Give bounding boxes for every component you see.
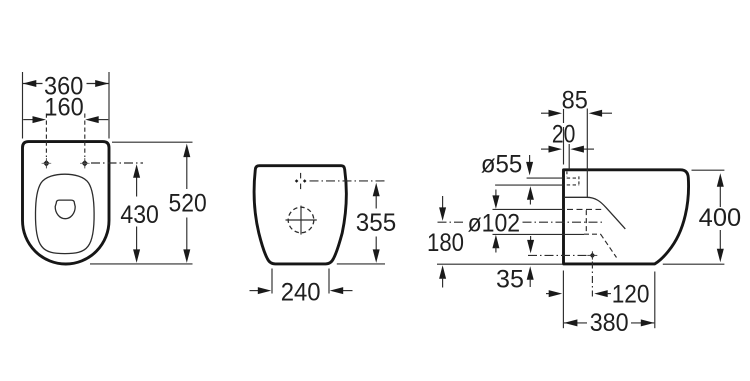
outlet bottom extension line	[493, 233, 585, 235]
svg-text:ø55: ø55	[481, 150, 522, 178]
plan view: seat opening	[35, 174, 94, 253]
dimension ø102	[438, 190, 617, 258]
front view: pan outline	[254, 166, 346, 264]
svg-text:180: 180	[427, 229, 464, 257]
plan view: right fixing hole marker	[80, 158, 90, 168]
dimension 85	[541, 86, 612, 197]
dimension 360	[23, 72, 110, 139]
dimension 380	[563, 271, 654, 338]
plan view: top extension line for 520	[112, 141, 193, 143]
front view: outlet cross hairs	[286, 219, 317, 221]
svg-text:430: 430	[120, 201, 158, 229]
dimension 430	[120, 164, 158, 263]
front view: outlet dashed circle	[288, 207, 314, 233]
plan view: dashed extension line from left hole	[45, 114, 47, 158]
svg-text:380: 380	[590, 309, 629, 337]
front view: centre line from inlet to 355 dimension	[310, 180, 386, 182]
plan view: pan outline	[23, 142, 110, 264]
plan view: centre line from right hole to 430 dimension	[91, 162, 143, 164]
outlet centre line	[438, 221, 466, 223]
side view: centre line from fixing hole to 120 dimension	[591, 262, 593, 297]
dimension 120	[546, 281, 650, 309]
front view: water inlet target mark	[295, 173, 307, 189]
dimension 20	[541, 120, 594, 169]
dimension ø55	[481, 150, 564, 204]
svg-text:160: 160	[44, 94, 83, 122]
dimension 160	[23, 94, 108, 124]
svg-text:35: 35	[496, 266, 524, 294]
side view: pan outline	[564, 170, 689, 264]
outlet top extension line	[493, 208, 564, 210]
dimension 400	[663, 170, 741, 264]
side view: floor extension line	[437, 263, 563, 265]
outlet hidden top line	[567, 208, 601, 210]
dimension 520	[169, 144, 207, 263]
plan view: dashed extension line from right hole	[84, 114, 86, 158]
svg-text:ø102: ø102	[468, 209, 520, 237]
dimension 180	[427, 196, 464, 288]
svg-text:520: 520	[169, 189, 207, 217]
svg-text:85: 85	[562, 86, 588, 114]
dimension 35	[496, 236, 590, 294]
svg-text:120: 120	[612, 281, 650, 309]
dimension 355	[356, 183, 396, 263]
svg-text:355: 355	[356, 209, 396, 237]
svg-text:20: 20	[552, 120, 576, 148]
svg-text:240: 240	[281, 279, 321, 307]
front view: bottom extension line for 355	[337, 263, 385, 265]
plan view: left fixing hole marker	[42, 158, 52, 168]
dimension 240	[250, 269, 353, 307]
side view: fixing hole marker	[587, 251, 597, 259]
plan view: sump outline	[55, 200, 75, 219]
plan view: bottom extension line for 430/520	[90, 263, 193, 265]
outlet hidden diagonal pipe line	[601, 234, 617, 257]
side view: bowl profile curve	[564, 197, 626, 229]
svg-text:400: 400	[699, 204, 742, 232]
side view: inlet hidden dashed outline	[567, 171, 580, 185]
